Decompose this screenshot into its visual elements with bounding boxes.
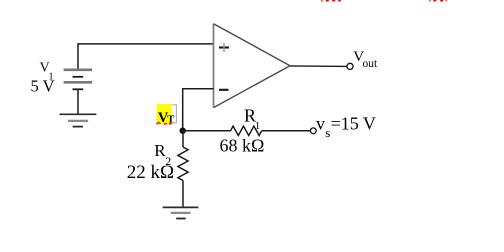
label Vout: [353, 49, 378, 70]
label vs=15 V: [316, 113, 376, 140]
junction node dot: [180, 128, 186, 134]
op-amp minus symbol: [219, 89, 229, 91]
Vs terminal circle: [310, 128, 316, 134]
resistor R2 (22 k) zigzag: [178, 147, 188, 180]
label R1: [244, 106, 260, 132]
wire R1 to Vs terminal: [262, 130, 311, 132]
wire R2 to ground: [182, 181, 184, 208]
svg-text:1: 1: [255, 120, 260, 132]
Vout terminal circle: [347, 63, 353, 69]
node VT label box: [157, 104, 177, 126]
wire node down to R2: [182, 131, 184, 147]
red dashed marks group 2 (top edge): [429, 0, 446, 2]
svg-text:out: out: [363, 58, 379, 70]
svg-text:=15 V: =15 V: [331, 113, 376, 133]
wire node to R1: [183, 130, 231, 132]
svg-text:68 kΩ: 68 kΩ: [220, 136, 265, 156]
wire from battery top to op-amp + input: [78, 44, 214, 70]
op-amp plus symbol: [219, 46, 229, 48]
svg-text:v: v: [316, 113, 325, 133]
output wire from op-amp: [290, 65, 347, 68]
svg-text:22 kΩ: 22 kΩ: [127, 162, 174, 183]
svg-text:5 V: 5 V: [31, 77, 55, 96]
label V1: [40, 61, 54, 83]
svg-text:s: s: [325, 125, 330, 140]
wire battery bottom to ground: [77, 89, 79, 114]
ground (below R2): [163, 207, 199, 218]
resistor R1 (68 k) zigzag: [231, 126, 262, 135]
red dashed marks group 1 (top edge): [321, 0, 341, 2]
wire from node VT to op-amp inverting input: [183, 89, 214, 131]
ground (below battery): [60, 114, 97, 126]
battery V1: [64, 70, 93, 90]
op-amp U1: [214, 24, 291, 108]
label R2: [154, 141, 171, 168]
